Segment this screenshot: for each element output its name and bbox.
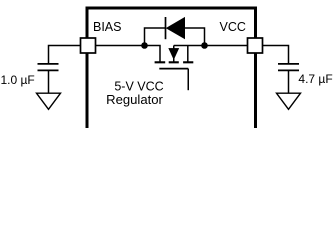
svg-text:VCC: VCC xyxy=(220,20,246,34)
svg-text:Regulator: Regulator xyxy=(106,92,163,107)
capacitor C1 1.0 uF plates xyxy=(38,64,59,71)
wire: gate lead of Q1 xyxy=(187,69,189,91)
transistor Q1 body contact bar xyxy=(169,61,179,63)
svg-text:4.7 µF: 4.7 µF xyxy=(298,72,332,86)
wire: C1 bottom lead xyxy=(48,70,50,93)
wire: diode branch up-left xyxy=(145,28,166,46)
capacitor C2 4.7 uF plates xyxy=(278,64,299,71)
pin VCC (square terminal on right edge) xyxy=(248,38,263,53)
transistor Q1 body-diode arrow (points down) xyxy=(169,48,179,59)
diode D1 body (points left) xyxy=(166,17,184,38)
svg-text:1.0 µF: 1.0 µF xyxy=(1,73,35,87)
IC box U1 (5-V VCC Regulator), open at bottom xyxy=(87,8,256,128)
ground symbol (left) xyxy=(37,93,61,109)
node junction dot (right) xyxy=(201,42,208,49)
wire: body lead of Q1 xyxy=(173,46,175,62)
wire: source lead of Q1 up to rail xyxy=(187,46,189,62)
svg-text:BIAS: BIAS xyxy=(93,20,122,34)
ground symbol (right) xyxy=(277,93,301,109)
wire: VCC pin to right capacitor xyxy=(261,46,289,64)
transistor Q1 gate electrode xyxy=(159,68,188,70)
wire: BIAS pin to left capacitor xyxy=(49,46,83,65)
wire: C2 bottom lead xyxy=(288,70,290,93)
node junction dot (left) xyxy=(141,42,148,49)
wire: main rail BIAS pin to MOSFET drain xyxy=(94,46,160,62)
pin BIAS (square terminal on left edge) xyxy=(81,38,96,53)
diode D1 cathode bar xyxy=(165,17,167,39)
transistor Q1 drain contact bar xyxy=(155,61,166,63)
wire: diode branch down-right xyxy=(185,28,205,46)
transistor Q1 source contact bar xyxy=(183,61,193,63)
wire: main rail from Q1 body/source to VCC pin xyxy=(174,45,249,47)
